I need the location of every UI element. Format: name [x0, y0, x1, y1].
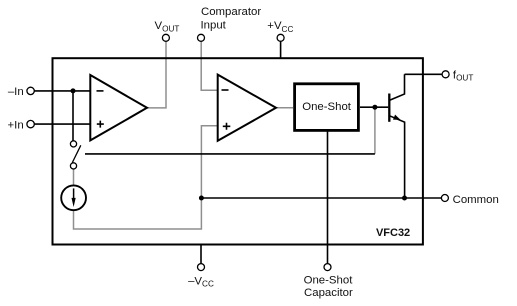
- svg-text:One-Shot: One-Shot: [304, 274, 354, 286]
- svg-text:Capacitor: Capacitor: [304, 287, 353, 299]
- svg-text:Input: Input: [201, 20, 227, 32]
- svg-text:–In: –In: [8, 86, 24, 98]
- svg-text:VFC32: VFC32: [376, 227, 410, 239]
- svg-text:Common: Common: [453, 194, 499, 206]
- svg-text:One-Shot: One-Shot: [302, 101, 352, 113]
- svg-text:Comparator: Comparator: [201, 6, 261, 18]
- svg-text:+In: +In: [8, 119, 24, 131]
